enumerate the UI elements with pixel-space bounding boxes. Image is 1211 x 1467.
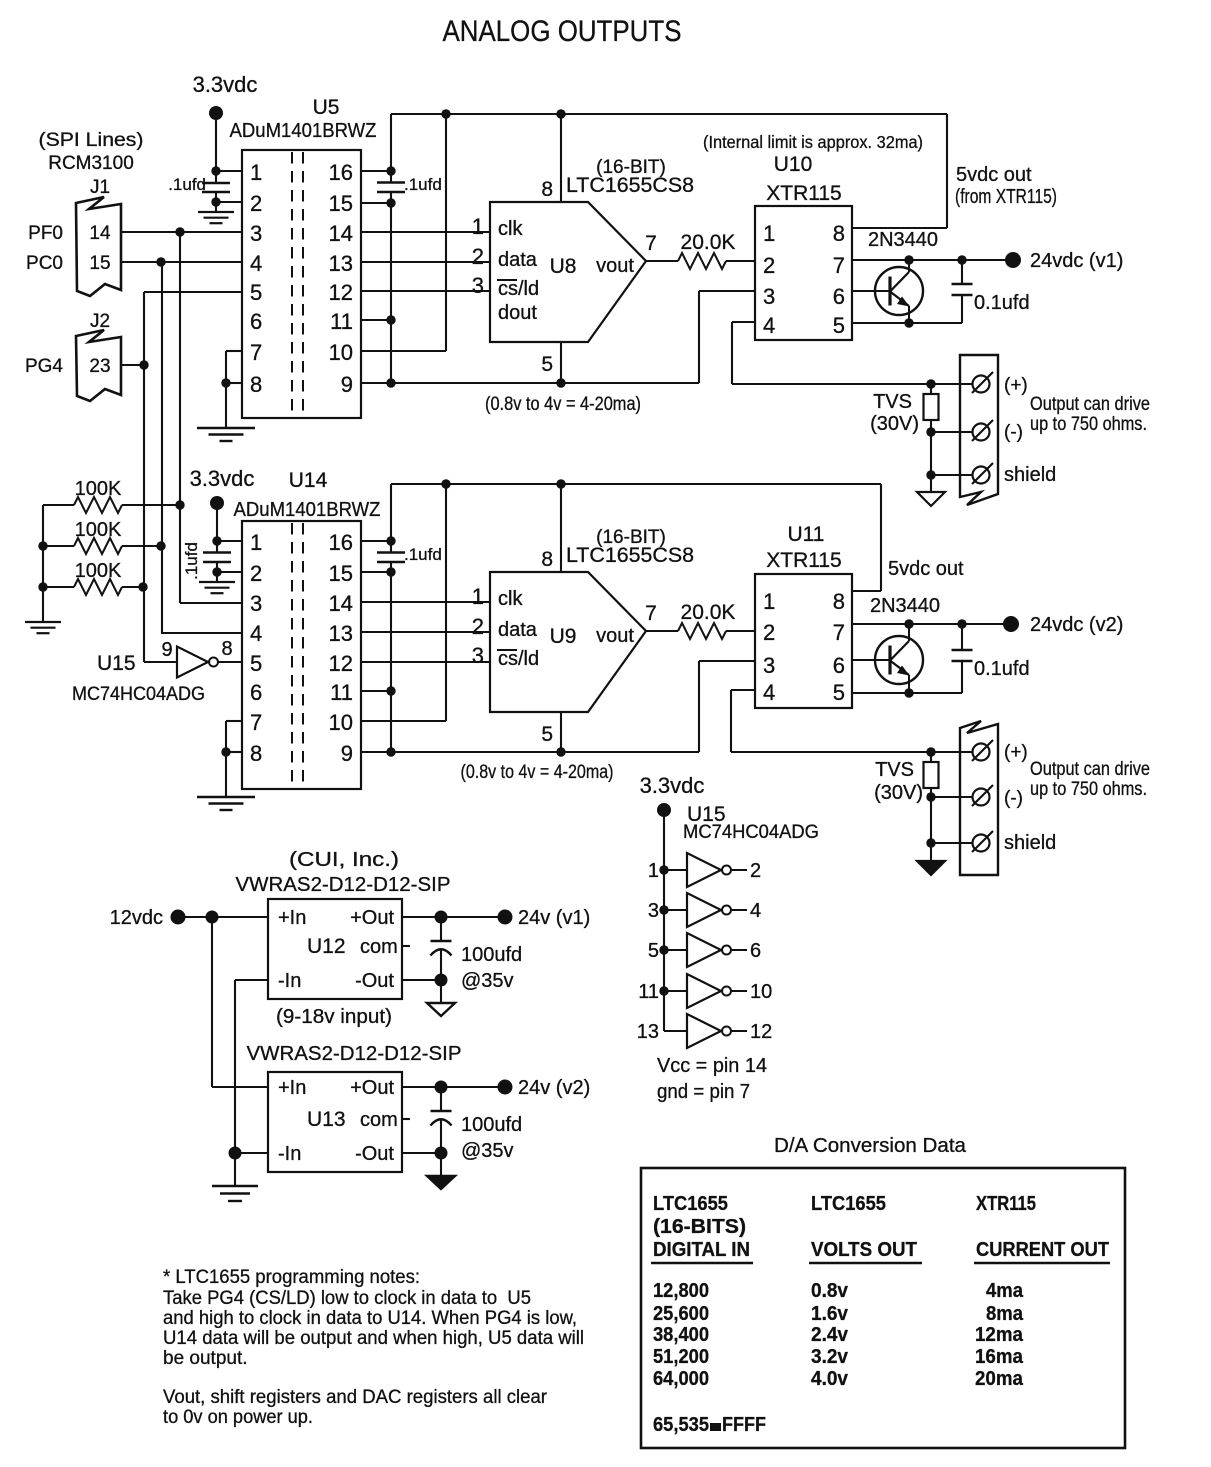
svg-text:.1ufd: .1ufd [168,175,206,194]
svg-text:5: 5 [250,280,262,305]
wire U11.7 to 24vdc v2 [852,623,1004,625]
wire U14.15 stub [361,571,391,573]
svg-text:ADuM1401BRWZ: ADuM1401BRWZ [230,120,377,142]
svg-text:3: 3 [250,221,262,246]
svg-text:25,600: 25,600 [653,1302,709,1325]
node U14 pin2 [212,567,221,576]
ground open triangle (U12) [440,980,442,1003]
table D/A conversion box [641,1168,1125,1448]
wire shield junction v2 [930,797,932,843]
svg-text:20.0K: 20.0K [681,601,736,624]
node U5.16 [386,166,395,175]
wire U5.14 to U8 clk [361,231,490,233]
node U8.5 on rail [556,378,565,387]
svg-text:6: 6 [833,284,845,309]
ground (U14 pins 7-8) [225,752,227,797]
svg-text:XTR115: XTR115 [976,1192,1036,1215]
svg-text:7: 7 [250,340,262,365]
node shield v2 [926,838,935,847]
svg-text:0.1ufd: 0.1ufd [974,292,1030,314]
node collector [904,255,913,264]
node 100K2 left [38,541,47,550]
wire U5.16 stub [361,170,391,172]
capacitor .1ufd (U14 left) [203,551,231,553]
wire U13.+Out to 24v v2 [402,1086,498,1088]
wire to minus terminal v2 [931,796,972,798]
node U5.15 [386,198,395,207]
svg-text:11: 11 [638,981,659,1003]
capacitor 100ufd @35v (v2) [440,1087,442,1111]
svg-text:vout: vout [596,255,634,277]
svg-text:38,400: 38,400 [653,1323,709,1346]
wire 5v vertical right of U14 [390,484,392,553]
node U5 pin2 [211,197,220,206]
svg-text:Vout, shift registers and DAC: Vout, shift registers and DAC registers … [163,1387,548,1408]
inverter U15 gate 13-12 [664,1030,687,1032]
node PF0 junction [175,227,184,236]
svg-text:5: 5 [541,723,553,746]
svg-text:CURRENT OUT: CURRENT OUT [976,1238,1109,1261]
svg-text:(Internal limit is approx. 32m: (Internal limit is approx. 32ma) [703,132,923,152]
svg-text:-In: -In [278,970,301,992]
svg-text:U8: U8 [550,255,577,278]
svg-text:1: 1 [250,530,262,555]
node U5 pin8 gnd [221,378,230,387]
node rail-U8 pin8 riser [556,109,565,118]
svg-text:J2: J2 [90,311,110,332]
svg-text:15: 15 [89,253,110,274]
wire U15 input bus [663,810,665,1031]
svg-text:13: 13 [329,621,353,646]
svg-text:U5: U5 [313,96,340,119]
svg-text:2: 2 [250,561,262,586]
inverter U15 gate 11-10 [659,986,668,995]
svg-text:and high to clock in data to U: and high to clock in data to U14. When P… [163,1308,577,1329]
node 100K3-PG4 [138,582,147,591]
svg-text:Vcc = pin 14: Vcc = pin 14 [657,1055,767,1077]
svg-text:9: 9 [161,639,172,661]
svg-text:RCM3100: RCM3100 [48,153,134,174]
ground (U5 left cap) [215,202,217,212]
svg-text:be output.: be output. [163,1348,248,1369]
svg-text:U15: U15 [97,652,136,675]
svg-text:8: 8 [250,741,262,766]
svg-text:11: 11 [330,309,353,334]
wire U5.7 to ground [226,350,242,352]
svg-text:8: 8 [833,221,845,246]
svg-text:65,535: 65,535 [653,1413,709,1436]
svg-text:4: 4 [250,621,262,646]
node TVS bottom v1 [926,427,935,436]
wire to U5.2 [216,201,242,203]
node collector v2 [904,619,913,628]
svg-text:15: 15 [329,561,353,586]
svg-text:8ma: 8ma [986,1302,1024,1325]
svg-text:com: com [360,1109,398,1131]
wire U10.8 to 5v rail [852,227,947,229]
svg-text:cs/ld: cs/ld [498,278,539,300]
svg-text:100ufd: 100ufd [461,1114,522,1136]
wire vertical PG4 bus [143,292,145,662]
svg-text:9: 9 [341,372,353,397]
svg-text:-Out: -Out [355,1143,394,1165]
wire vertical PC0 bus [161,262,163,633]
node TVS top v1 [926,379,935,388]
wire U14.7 to ground [226,720,242,722]
wire U9.8 riser [560,484,562,572]
svg-text:* LTC1655 programming notes:: * LTC1655 programming notes: [163,1267,420,1288]
svg-text:12: 12 [329,651,353,676]
wire U8.5 riser [560,342,562,383]
svg-text:13: 13 [637,1021,659,1043]
wire U5.11 stub [361,319,391,321]
svg-text:-Out: -Out [355,970,394,992]
node 100K1-PF0 [175,500,184,509]
svg-text:20ma: 20ma [975,1367,1024,1390]
terminal 24vdc v2 [1003,616,1019,632]
svg-text:data: data [498,619,538,641]
svg-text:VWRAS2-D12-D12-SIP: VWRAS2-D12-D12-SIP [236,874,451,896]
svg-text:data: data [498,249,538,271]
svg-text:shield: shield [1004,832,1056,854]
wire U14.13 to U9 data [361,631,490,633]
terminal block v2 [960,721,998,875]
svg-text:J1: J1 [90,177,110,198]
svg-text:(-): (-) [1004,788,1023,809]
node U13.-Out [435,1147,448,1160]
svg-text:6: 6 [250,309,262,334]
svg-text:FFFF: FFFF [722,1413,766,1436]
xmtr U10 XTR115 [755,206,852,340]
terminal 24v v2 [498,1080,513,1095]
node U9.5 on rail [556,747,565,756]
svg-text:8: 8 [541,548,553,571]
svg-text:-In: -In [278,1143,301,1165]
wire U12.-Out [402,979,441,981]
ground open triangle v1 [930,475,932,492]
svg-text:.1ufd: .1ufd [404,175,442,194]
svg-text:+Out: +Out [350,1077,394,1099]
svg-text:(+): (+) [1004,742,1028,763]
svg-text:(CUI, Inc.): (CUI, Inc.) [289,849,399,871]
svg-text:24vdc (v2): 24vdc (v2) [1030,614,1123,636]
resistor 100K #1 [43,504,74,506]
wire U5.8 stub [226,382,242,384]
wire to minus terminal v1 [931,431,972,433]
wire rail riser to U10.3 [698,291,700,383]
svg-text:dout: dout [498,302,537,324]
svg-text:(0.8v to 4v = 4-20ma): (0.8v to 4v = 4-20ma) [461,762,614,783]
wire U14.14 to U9 clk [361,601,490,603]
svg-text:LTC1655: LTC1655 [653,1192,728,1215]
resistor 100K #2 [43,545,74,547]
svg-text:2: 2 [763,620,775,645]
wire to U14.2 [217,571,242,573]
terminal 12vdc [171,910,186,925]
wire U14.10 riser [445,484,447,721]
wire shield junction v1 [930,432,932,475]
svg-text:5: 5 [833,313,845,338]
svg-text:to 0v on power up.: to 0v on power up. [163,1407,313,1428]
svg-text:ADuM1401BRWZ: ADuM1401BRWZ [234,499,381,521]
svg-text:14: 14 [89,223,111,244]
svg-text:5vdc out: 5vdc out [956,164,1032,186]
svg-text:clk: clk [498,588,523,610]
node U12.-Out [435,974,448,987]
ground filled triangle (U13) [440,1153,442,1176]
wire U14.9 rail [361,751,699,753]
svg-text:+In: +In [278,907,306,929]
svg-text:Output can drive: Output can drive [1030,759,1150,780]
node cap 0.1ufd top [957,255,966,264]
svg-text:14: 14 [329,221,353,246]
svg-text:3: 3 [250,591,262,616]
svg-text:11: 11 [330,680,353,705]
svg-text:up to 750 ohms.: up to 750 ohms. [1030,414,1147,435]
dcdc U12 VWRAS2-D12-D12-SIP [268,899,402,999]
svg-text:(-): (-) [1004,422,1023,443]
wire U11.5 [852,692,962,694]
wire U13.-Out [402,1152,441,1154]
svg-text:2N3440: 2N3440 [870,595,940,617]
svg-text:1.6v: 1.6v [811,1302,849,1325]
svg-text:5vdc out: 5vdc out [888,558,964,580]
wire U14.11 stub [361,690,391,692]
svg-text:100ufd: 100ufd [461,944,522,966]
svg-text:(SPI Lines): (SPI Lines) [39,130,144,151]
svg-text:up to 750 ohms.: up to 750 ohms. [1030,779,1147,800]
transistor Q2 2N3440 [852,659,890,661]
node U14.15 [386,567,395,576]
svg-text:@35v: @35v [461,1140,514,1162]
node cap 100ufd v2 [435,1081,448,1094]
svg-text:5: 5 [541,353,553,376]
svg-text:16: 16 [329,160,353,185]
wire PG4 J2.23 [121,364,144,366]
svg-text:Output can drive: Output can drive [1030,394,1150,415]
svg-text:6: 6 [250,680,262,705]
svg-text:24vdc (v1): 24vdc (v1) [1030,250,1123,272]
svg-text:9: 9 [341,741,353,766]
node TVS top v2 [926,747,935,756]
svg-text:24v (v1): 24v (v1) [518,907,590,929]
svg-text:ANALOG OUTPUTS: ANALOG OUTPUTS [443,15,682,48]
capacitor 100ufd @35v (v1) [440,917,442,941]
svg-text:64,000: 64,000 [653,1367,709,1390]
svg-text:13: 13 [329,251,353,276]
svg-text:.1ufd: .1ufd [182,542,201,580]
svg-text:2: 2 [472,244,484,269]
resistor 100K #3 [43,586,74,588]
svg-text:1: 1 [472,214,484,239]
isolator U14 ADuM1401BRWZ [242,521,361,789]
svg-text:2.4v: 2.4v [811,1323,849,1346]
svg-text:LTC1655CS8: LTC1655CS8 [566,174,694,197]
svg-text:U13: U13 [307,1108,346,1131]
svg-text:4.0v: 4.0v [811,1367,849,1390]
svg-text:LTC1655CS8: LTC1655CS8 [566,544,694,567]
inverter U15 gate 5-6 [659,945,668,954]
transistor Q1 2N3440 [852,290,890,292]
svg-text:PC0: PC0 [26,253,63,274]
wire U5.15 stub [361,202,391,204]
wire U9.5 riser [560,712,562,752]
wire 5vdc rail top [391,113,947,115]
wire U5.12 to U8 cs/ld [361,290,490,292]
wire U11.8 to 5v rail lower [852,590,881,592]
node PG4 junction [139,360,148,369]
svg-text:4: 4 [763,680,775,705]
svg-text:4: 4 [763,313,775,338]
node rail-U9 pin8 riser [556,479,565,488]
svg-text:12: 12 [750,1021,772,1043]
svg-text:XTR115: XTR115 [766,182,841,205]
svg-text:3.2v: 3.2v [811,1345,849,1368]
svg-text:0.1ufd: 0.1ufd [974,658,1030,680]
tvs diode TVS 30V (v2) [930,752,932,762]
svg-text:2: 2 [763,253,775,278]
svg-text:gnd = pin 7: gnd = pin 7 [657,1081,750,1103]
dac U8 LTC1655CS8 [490,202,646,342]
svg-text:1: 1 [763,589,775,614]
svg-text:+Out: +Out [350,907,394,929]
capacitor 0.1ufd (v1) [952,283,973,285]
svg-text:(30V): (30V) [874,782,923,804]
connector J2 [76,330,121,401]
svg-text:3: 3 [648,900,659,922]
capacitor .1ufd (U5 right) [377,181,405,183]
svg-text:1: 1 [648,860,659,882]
svg-text:clk: clk [498,218,523,240]
capacitor 0.1ufd (v2) [952,649,973,651]
svg-text:3: 3 [472,273,484,298]
node 100K2-PC0 [156,541,165,550]
svg-text:15: 15 [329,191,353,216]
svg-text:6: 6 [750,940,761,962]
svg-text:3.3vdc: 3.3vdc [190,466,255,491]
svg-text:4ma: 4ma [986,1279,1024,1302]
wire U14.8 stub [226,751,242,753]
node U5.9 [386,378,395,387]
svg-text:vout: vout [596,625,634,647]
svg-text:20.0K: 20.0K [681,231,736,254]
inverter U15 gate 3-4 [659,905,668,914]
svg-text:24v (v2): 24v (v2) [518,1077,590,1099]
svg-text:PG4: PG4 [25,356,63,377]
xmtr U11 XTR115 [755,574,852,708]
wire U5.13 to U8 data [361,261,490,263]
node shield v1 [926,470,935,479]
resistor 20.0K (U8-U10) [646,260,678,262]
svg-text:DIGITAL IN: DIGITAL IN [653,1238,750,1261]
wire to U5.1 [216,170,242,172]
svg-text:(0.8v to 4v = 4-20ma): (0.8v to 4v = 4-20ma) [485,394,641,415]
svg-text:4: 4 [750,900,761,922]
svg-text:7: 7 [833,620,845,645]
resistor 20.0K (U9-U11) [646,630,678,632]
inverter U15a (PG4) [144,661,177,663]
wire U10.4 to terminal+ [732,321,755,323]
wire 100K left bus [42,505,44,621]
wire vertical PF0 bus [179,232,181,603]
ground (U14 left cap) [216,572,218,582]
wire U5.5 to PG4 vertical [144,291,242,293]
node U5.11 [386,315,395,324]
svg-text:D/A Conversion Data: D/A Conversion Data [774,1135,967,1157]
svg-text:2: 2 [250,191,262,216]
capacitor .1ufd (U5 left) [202,182,230,184]
svg-text:12,800: 12,800 [653,1279,709,1302]
isolator U5 ADuM1401BRWZ [242,150,361,418]
node rail-U14pin10 riser [441,479,450,488]
svg-text:5: 5 [833,680,845,705]
wire U11.4 to terminal+ v2 [731,689,755,691]
ground (U5 pins 7-8) [225,383,227,428]
node U14.16 [386,536,395,545]
svg-text:10: 10 [329,710,353,735]
svg-text:14: 14 [329,591,353,616]
svg-text:6: 6 [833,653,845,678]
svg-text:2: 2 [472,614,484,639]
wire U14.16 stub [361,540,391,542]
svg-text:8: 8 [250,372,262,397]
wire U10.7 to 24vdc v1 [852,259,1006,261]
svg-text:16: 16 [329,530,353,555]
svg-text:MC74HC04ADG: MC74HC04ADG [72,684,205,705]
node rail-pin10 riser [441,109,450,118]
svg-text:1: 1 [763,221,775,246]
wire U13.-In stub [235,1152,268,1154]
svg-text:1: 1 [250,160,262,185]
svg-text:12ma: 12ma [975,1323,1024,1346]
wire U8.8 riser [560,114,562,202]
svg-text:7: 7 [645,232,657,255]
svg-text:(+): (+) [1004,375,1028,396]
svg-text:7: 7 [250,710,262,735]
svg-text:3: 3 [763,653,775,678]
svg-text:VOLTS OUT: VOLTS OUT [811,1238,917,1261]
svg-text:23: 23 [89,356,110,377]
svg-text:5: 5 [250,651,262,676]
node cap 0.1ufd top v2 [957,619,966,628]
wire PF0 bus to U14.3 [180,602,242,604]
svg-text:3.3vdc: 3.3vdc [193,72,258,97]
svg-text:8: 8 [833,589,845,614]
svg-text:(from XTR115): (from XTR115) [955,186,1057,208]
dac U9 LTC1655CS8 [490,572,646,712]
svg-text:3.3vdc: 3.3vdc [640,773,705,798]
svg-text:10: 10 [750,981,772,1003]
node cap 100ufd v1 [435,911,448,924]
terminal block v1 [960,355,998,505]
node U14.9 [386,747,395,756]
ground (100K bus) [25,621,61,623]
svg-text:com: com [360,936,398,958]
node emitter [904,318,913,327]
svg-text:TVS: TVS [873,391,912,413]
dcdc U13 VWRAS2-D12-D12-SIP [268,1072,402,1172]
node 12vdc branch [206,911,219,924]
svg-text:2N3440: 2N3440 [868,229,938,251]
node TVS bottom v2 [926,792,935,801]
node U14 pin8 gnd [221,747,230,756]
svg-text:16ma: 16ma [975,1345,1024,1368]
svg-text:(16-BITS): (16-BITS) [653,1215,746,1238]
svg-text:U10: U10 [774,153,813,176]
svg-text:(9-18v input): (9-18v input) [276,1006,392,1028]
svg-text:U11: U11 [788,523,825,546]
wire 12vdc to U12.+In [185,916,268,918]
